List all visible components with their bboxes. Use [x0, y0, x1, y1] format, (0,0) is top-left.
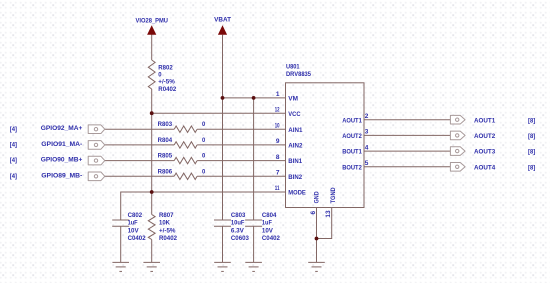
- wire GND pin 6 stub: [316, 208, 318, 239]
- wire R807 to ground: [151, 240, 153, 263]
- junction R807-MODE: [150, 190, 154, 194]
- svg-text:R0402: R0402: [159, 235, 177, 242]
- resistor R802: [148, 60, 155, 89]
- port tag output row 1: [450, 115, 465, 124]
- svg-text:10uF: 10uF: [231, 220, 245, 227]
- svg-text:AIN2: AIN2: [288, 143, 303, 150]
- wire C804 to ground: [253, 226, 255, 262]
- svg-text:[4]: [4]: [10, 173, 17, 180]
- wire BOUT1 output: [364, 150, 450, 152]
- svg-text:R804: R804: [158, 137, 173, 144]
- svg-text:2: 2: [365, 113, 369, 120]
- wire VBAT vertical: [222, 35, 224, 220]
- svg-text:VIO28_PMU: VIO28_PMU: [136, 17, 169, 24]
- wire VM to pin 1: [223, 97, 286, 99]
- capacitor C803: [214, 219, 231, 221]
- capacitor C802: [112, 219, 129, 221]
- power symbol VIO28_PMU arrow: [147, 25, 156, 35]
- wire GPIO row 3 left: [105, 160, 175, 162]
- svg-text:8: 8: [276, 154, 280, 161]
- svg-text:[8]: [8]: [528, 133, 535, 140]
- svg-text:VM: VM: [288, 96, 298, 103]
- wire GPIO row 4 left: [105, 175, 175, 177]
- wire GPIO row 1 right: [197, 128, 285, 130]
- wire GPIO row 1 left: [105, 128, 175, 130]
- svg-text:0: 0: [202, 168, 206, 175]
- svg-text:6.3V: 6.3V: [231, 227, 245, 234]
- svg-text:[4]: [4]: [10, 126, 17, 133]
- svg-text:R0402: R0402: [158, 86, 176, 93]
- wire TGND pin 13 stub: [317, 208, 332, 239]
- ground symbol at x=316.5: [308, 261, 325, 263]
- junction R802-VCC: [150, 111, 154, 115]
- svg-text:U801: U801: [286, 63, 300, 70]
- svg-text:VBAT: VBAT: [214, 17, 231, 24]
- resistor R807: [148, 215, 155, 240]
- svg-text:R803: R803: [158, 121, 173, 128]
- svg-text:C0402: C0402: [262, 235, 280, 242]
- svg-text:10V: 10V: [262, 227, 274, 234]
- svg-text:11: 11: [275, 185, 280, 192]
- svg-text:9: 9: [276, 138, 280, 145]
- svg-text:3: 3: [365, 129, 369, 136]
- svg-text:7: 7: [276, 170, 280, 177]
- resistor R805: [174, 157, 197, 163]
- port tag GPIO row 2: [88, 141, 105, 150]
- wire GPIO row 2 left: [105, 144, 175, 146]
- svg-text:0: 0: [158, 72, 162, 79]
- svg-text:[8]: [8]: [528, 164, 535, 171]
- svg-text:TGND: TGND: [330, 187, 337, 203]
- port tag GPIO row 1: [88, 125, 105, 134]
- svg-text:AOUT3: AOUT3: [474, 149, 496, 156]
- svg-text:[4]: [4]: [10, 142, 17, 149]
- svg-text:DRV8835: DRV8835: [286, 71, 311, 78]
- port tag GPIO row 4: [88, 172, 105, 181]
- svg-text:13: 13: [325, 210, 332, 218]
- wire AOUT2 output: [364, 134, 450, 136]
- svg-text:R802: R802: [158, 64, 173, 71]
- svg-text:GPIO92_MA+: GPIO92_MA+: [41, 125, 83, 132]
- port tag GPIO row 3: [88, 156, 105, 165]
- wire GND to ground: [316, 239, 318, 263]
- svg-text:10V: 10V: [128, 227, 140, 234]
- svg-text:AOUT2: AOUT2: [342, 133, 362, 140]
- svg-text:+/-5%: +/-5%: [159, 227, 176, 234]
- resistor R803: [174, 126, 197, 132]
- svg-text:R807: R807: [159, 212, 174, 219]
- junction VBAT-VM: [221, 96, 225, 100]
- svg-text:C804: C804: [262, 212, 277, 219]
- ground symbol at x=151.7: [143, 261, 160, 263]
- svg-text:1uF: 1uF: [128, 220, 138, 227]
- wire GPIO row 4 right: [197, 175, 285, 177]
- svg-text:R805: R805: [158, 153, 173, 160]
- ground symbol at x=222.5: [214, 261, 231, 263]
- wire C802 to ground: [120, 226, 122, 262]
- svg-text:10: 10: [275, 122, 280, 129]
- svg-text:R806: R806: [158, 168, 173, 175]
- svg-text:+/-5%: +/-5%: [158, 79, 175, 86]
- svg-text:GPIO90_MB+: GPIO90_MB+: [41, 157, 83, 164]
- svg-text:MODE: MODE: [288, 190, 306, 197]
- svg-text:GND: GND: [314, 191, 321, 203]
- port tag output row 4: [450, 163, 465, 172]
- svg-text:0: 0: [202, 153, 206, 160]
- svg-text:12: 12: [275, 106, 280, 113]
- wire C803 to ground: [222, 226, 224, 262]
- svg-text:AIN1: AIN1: [288, 127, 303, 134]
- capacitor C804: [245, 219, 262, 221]
- svg-text:C0603: C0603: [231, 235, 249, 242]
- svg-text:AOUT2: AOUT2: [474, 133, 496, 140]
- ground symbol at x=253.6: [245, 261, 262, 263]
- svg-text:6: 6: [310, 211, 317, 215]
- svg-text:BIN1: BIN1: [288, 158, 302, 165]
- svg-text:[4]: [4]: [10, 157, 17, 164]
- svg-text:1: 1: [276, 91, 280, 98]
- port tag output row 3: [450, 147, 465, 156]
- svg-text:BOUT2: BOUT2: [342, 164, 362, 171]
- power symbol VBAT arrow: [218, 25, 227, 35]
- svg-text:10K: 10K: [159, 220, 170, 227]
- wire C804 vertical: [253, 98, 255, 220]
- wire AOUT1 output: [364, 119, 450, 121]
- svg-text:AOUT1: AOUT1: [474, 117, 496, 124]
- svg-text:BIN2: BIN2: [288, 174, 302, 181]
- svg-text:0: 0: [202, 137, 206, 144]
- svg-text:GPIO89_MB-: GPIO89_MB-: [41, 172, 82, 179]
- svg-text:C802: C802: [128, 212, 143, 219]
- svg-text:AOUT4: AOUT4: [474, 164, 496, 171]
- wire MODE net: [121, 192, 286, 220]
- svg-text:4: 4: [365, 144, 369, 151]
- svg-text:[8]: [8]: [528, 149, 535, 156]
- svg-text:C803: C803: [231, 212, 246, 219]
- wire VCC net vertical: [151, 89, 153, 215]
- wire VCC to pin 12: [152, 112, 286, 114]
- svg-text:[8]: [8]: [528, 117, 535, 124]
- svg-text:1uF: 1uF: [262, 220, 272, 227]
- wire GPIO row 3 right: [197, 160, 285, 162]
- IC U801 DRV8835 body: [286, 83, 365, 208]
- port tag output row 2: [450, 131, 465, 140]
- junction GND-TGND: [315, 237, 319, 241]
- svg-text:5: 5: [365, 160, 369, 167]
- wire BOUT2 output: [364, 166, 450, 168]
- svg-text:0: 0: [202, 121, 206, 128]
- svg-text:BOUT1: BOUT1: [342, 149, 362, 156]
- ground symbol at x=120.7: [112, 261, 129, 263]
- svg-text:AOUT1: AOUT1: [342, 117, 362, 124]
- resistor R804: [174, 142, 197, 148]
- svg-text:VCC: VCC: [288, 111, 300, 118]
- wire GPIO row 2 right: [197, 144, 285, 146]
- svg-text:GPIO91_MA-: GPIO91_MA-: [41, 141, 82, 148]
- resistor R806: [174, 173, 197, 179]
- wire VIO28_PMU stem: [151, 35, 153, 61]
- junction C804-VM: [252, 96, 256, 100]
- svg-text:C0402: C0402: [128, 235, 146, 242]
